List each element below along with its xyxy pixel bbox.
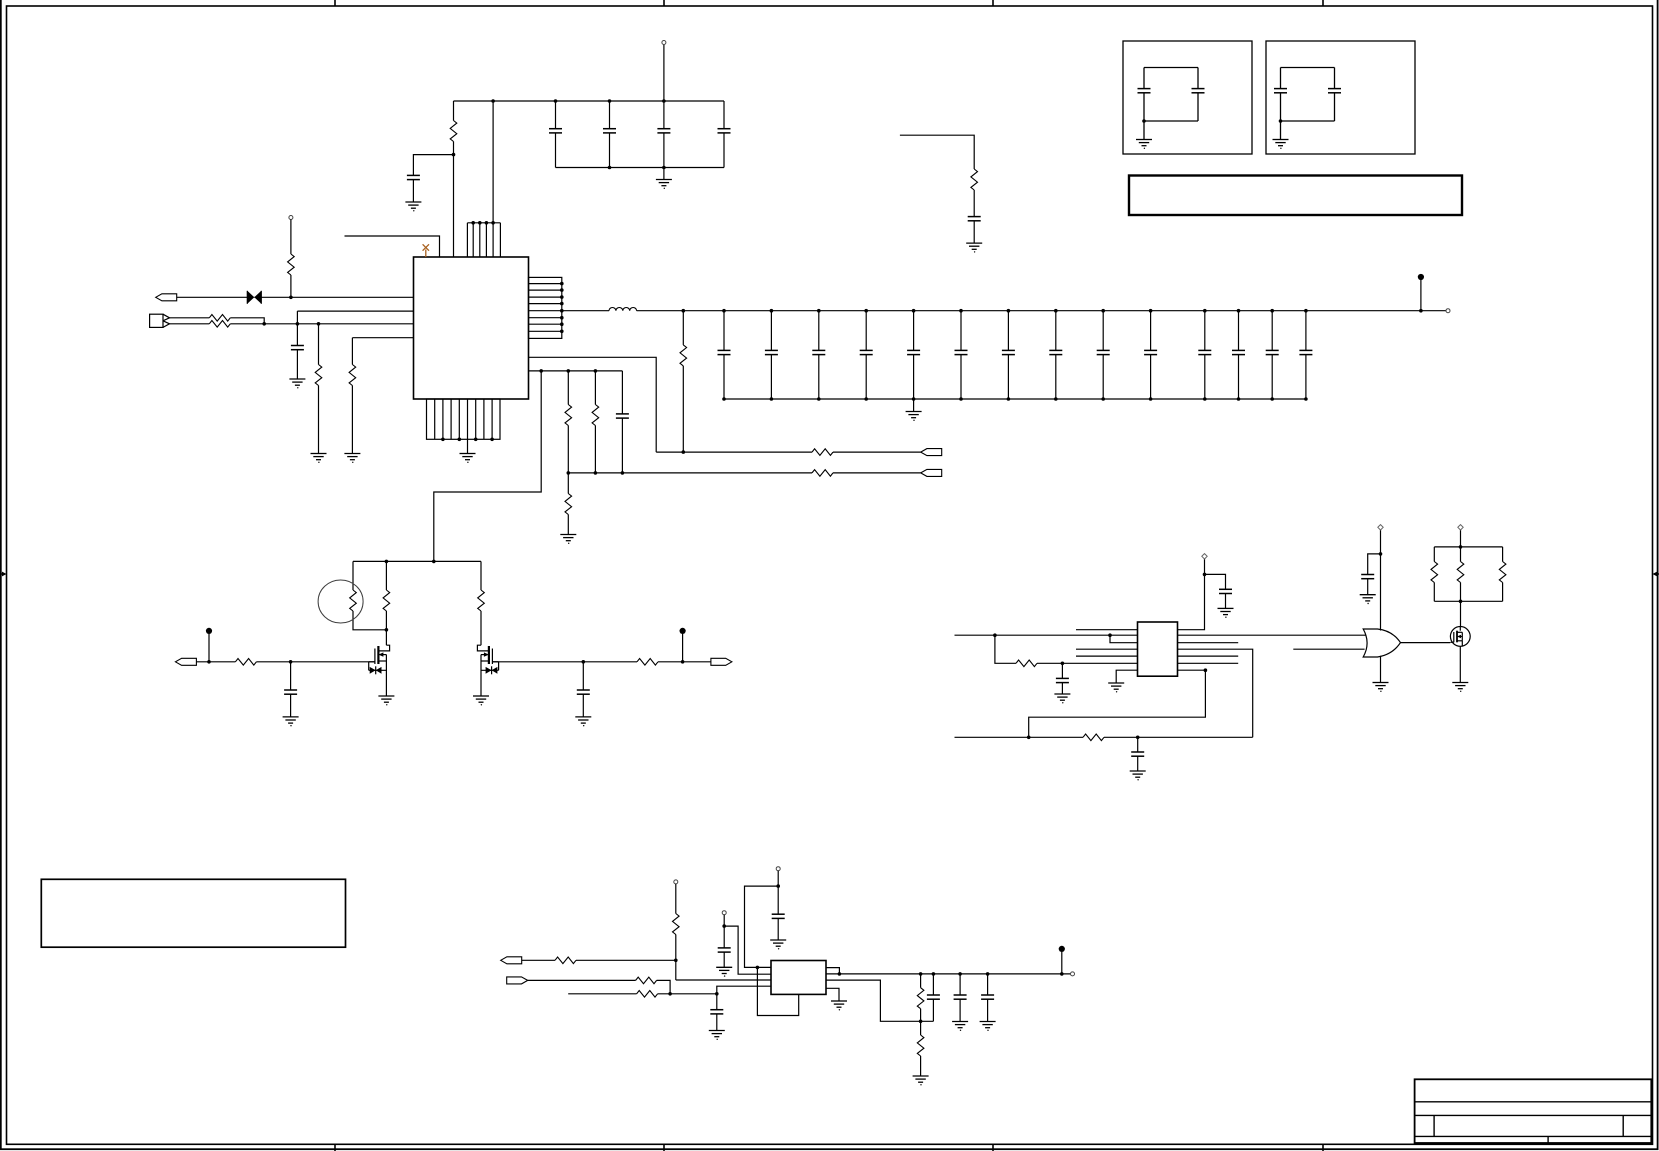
wire J2 lower (170, 323, 210, 325)
box2 bottom wire (1281, 120, 1335, 122)
capacitor in box2 right (1328, 68, 1341, 122)
wire U3 output (1401, 642, 1451, 644)
capacitor C1 (407, 175, 420, 202)
wire J8 to R25 (528, 979, 636, 981)
transistor Q1 (369, 630, 390, 696)
title block cell divider left (1433, 1115, 1435, 1136)
resistor R25 (636, 977, 657, 984)
resistor R14 (383, 561, 390, 629)
caps ground rail (724, 398, 1306, 400)
resistor R2 pull (288, 216, 295, 298)
wire R4 to U1 pin3 (230, 323, 413, 325)
ground cap group (656, 168, 672, 190)
wire drop to R18 (995, 635, 1016, 663)
connector J2 dual (150, 314, 170, 327)
transistor Q2 (477, 645, 498, 696)
junction C6 tap (296, 322, 300, 326)
rail test point stub (1418, 274, 1424, 313)
junction box2 (1279, 119, 1283, 123)
wire node to U4 pin3 (676, 979, 771, 981)
junction pullup top (1459, 545, 1463, 549)
test point right (680, 628, 686, 664)
decoupling capacitor C12 (955, 309, 968, 401)
label banner rectangle (1129, 176, 1462, 216)
wire R3 to merge (230, 318, 264, 324)
resistor R21 (1457, 547, 1464, 601)
resistor R7 (680, 311, 687, 452)
wire R17 to J6 (658, 661, 711, 663)
junction pinR7 (1204, 668, 1208, 672)
capacitor C30 (718, 948, 731, 967)
test point left (206, 628, 212, 664)
wire U2 pinR4 loop (1178, 649, 1253, 737)
junction rail a (385, 560, 389, 564)
resistor R15 (235, 659, 256, 666)
ground U2 pin7 (1108, 683, 1124, 693)
terminal pull node b (722, 911, 726, 948)
option box 1 top-right (1123, 41, 1252, 154)
title block divider row1 (1415, 1101, 1652, 1103)
wire snubber net (900, 135, 974, 169)
resistor R22 (1499, 547, 1506, 601)
ground U4 pinR3 (831, 1001, 847, 1011)
wire J2 upper (170, 317, 210, 319)
ground C1 (405, 202, 421, 212)
terminal diamond pullups (1458, 525, 1463, 530)
capacitor C29 (772, 914, 785, 940)
connector J3 (921, 449, 942, 456)
capacitor C31 (927, 974, 940, 1021)
gate top rail (353, 560, 481, 562)
wire Q2 gate to R17 (492, 661, 637, 663)
capacitor C3 (603, 101, 616, 168)
pin stub U2 pin5 (1076, 655, 1138, 657)
junction feed row b (567, 369, 571, 373)
junction merge lower (668, 992, 672, 996)
wire U2 pinR7 loop (1029, 670, 1206, 737)
zone tick bottom 2 (663, 1144, 665, 1151)
diode D1 (247, 291, 261, 304)
pin stub U2 pin1 (1076, 629, 1138, 631)
connector J8 (507, 977, 528, 984)
capacitor C6 (291, 346, 304, 380)
ground C29 (770, 940, 786, 950)
box1 bottom wire (1144, 120, 1198, 122)
resistor R20 (1431, 547, 1438, 601)
junction pull node a (776, 884, 780, 888)
wire R19 to corner (1104, 736, 1253, 738)
junction C23 (582, 660, 586, 664)
wire U2 pinR2 to gate input (1178, 634, 1367, 636)
capacitor C22 (284, 662, 297, 717)
capacitor C24 (1056, 663, 1069, 694)
decoupling capacitor C8 (765, 309, 778, 401)
junction pullup bottom (1459, 600, 1463, 604)
junction C27 tap (1379, 552, 1383, 556)
junction sense upper (682, 450, 686, 454)
ground C24 (1054, 694, 1070, 704)
ground C25 (1218, 608, 1234, 618)
ground Q3 (1452, 683, 1468, 693)
no-connect X marker (423, 244, 429, 257)
wire R26 to cap node (658, 993, 717, 995)
resistor R24 pull (673, 880, 680, 980)
option box 2 top-right (1266, 41, 1415, 154)
resistor R9 (592, 371, 599, 473)
notes box bottom-left (41, 879, 345, 947)
wire J5 to R15 (196, 661, 235, 663)
wire U1 feed row (529, 370, 623, 372)
ground C27 (1360, 595, 1376, 605)
junction C32 (958, 972, 962, 976)
capacitor C25 (1219, 589, 1232, 608)
wire R23 to node (576, 959, 676, 961)
pin stub U2 pin4 (1076, 648, 1138, 650)
junction feed row c (594, 369, 598, 373)
cap group bottom rail (556, 167, 725, 169)
junction sense lower c (621, 471, 625, 475)
resistor R5 (315, 322, 322, 454)
junction divider mid (919, 1020, 923, 1024)
junction R24 node (674, 959, 678, 963)
ground C28 (709, 1031, 725, 1041)
ground C32 (952, 1022, 968, 1032)
terminal diamond U3 (1378, 525, 1383, 530)
junction C25 tap (1203, 573, 1207, 577)
decoupling capacitor C15 (1097, 309, 1110, 401)
wire R11 to J4 (833, 472, 921, 474)
junction rail R7 (682, 309, 686, 313)
resistor R23 (555, 957, 576, 964)
wire R10 to J3 (833, 451, 921, 453)
capacitor C34 (968, 217, 981, 244)
resistor R17 (637, 659, 658, 666)
junction box1 (1142, 119, 1146, 123)
box1 top wire (1144, 67, 1198, 69)
capacitor in box2 left (1274, 68, 1287, 140)
wire bottom net (955, 736, 1084, 738)
decoupling capacitor C17 (1198, 309, 1211, 401)
wire D1 to U1 pin1 (254, 296, 413, 298)
resistor R28 (917, 1021, 924, 1076)
connector J6 (711, 658, 732, 665)
wire sense line lower (568, 472, 812, 474)
junction divider top (919, 972, 923, 976)
pin stub U2 pinR6 (1178, 662, 1239, 664)
decoupling capacitor C18 (1232, 309, 1245, 401)
wire U3 bottom to ground (1380, 656, 1382, 683)
main power rail (637, 310, 1446, 312)
inductor L1 (609, 308, 637, 311)
wire vdd to U3 top (1380, 529, 1382, 631)
ground C34 (966, 243, 982, 253)
pin bundle above U1 (467, 221, 500, 257)
resistor R10 (812, 449, 833, 456)
output test point (1059, 946, 1065, 976)
capacitor C32 (954, 974, 967, 1022)
junction C31 (932, 972, 936, 976)
wire Q3 source to ground (1459, 646, 1461, 682)
ground R28 (913, 1076, 929, 1086)
wire J1 to D1 (177, 296, 248, 298)
ground C33 (980, 1022, 996, 1032)
ground Q2 (473, 696, 489, 706)
ground C30 (716, 967, 732, 977)
protection diode Q1 (369, 662, 387, 675)
wire to C1 (413, 155, 453, 176)
wire node a to U4 pin1 (745, 886, 779, 967)
ground Q1 (378, 696, 394, 706)
ground C23 (575, 717, 591, 727)
capacitor C4 (657, 101, 670, 168)
wire feedback loop (757, 967, 798, 1015)
connector J4 (921, 469, 942, 476)
wire U2 pin7 to ground (1116, 670, 1137, 683)
zone tick bottom 3 (992, 1144, 994, 1151)
resistor R13 circled (350, 561, 387, 629)
wire pullups to Q3 drain (1460, 601, 1462, 626)
capacitor C26 (1131, 737, 1144, 771)
ground C6 (289, 379, 305, 389)
capacitor C2 (549, 101, 562, 168)
junction sense lower b (594, 471, 598, 475)
junction C22 (289, 660, 293, 664)
ground R6 (344, 454, 360, 464)
output open terminal (1071, 972, 1075, 976)
wire drop to gate rail (434, 371, 541, 562)
decoupling capacitor C7 (718, 309, 731, 401)
zone tick left mid (0, 572, 7, 577)
capacitor in box1 right (1192, 68, 1205, 122)
capacitor C33 (981, 974, 994, 1022)
IC U4 (771, 961, 826, 995)
rail open terminal (1446, 309, 1450, 313)
wire R18 to U2 pin6 (1037, 662, 1138, 664)
pullup rail bottom (1434, 600, 1502, 602)
wire node b to U4 pin2 (724, 926, 771, 974)
wire R6 to U1 pin4 (352, 337, 413, 339)
zone tick bottom 4 (1322, 1144, 1324, 1151)
zone tick top 2 (663, 0, 665, 6)
junction C26 (1136, 736, 1140, 740)
junction merge (262, 322, 266, 326)
resistor R4 (209, 321, 230, 328)
transistor Q3 (1450, 627, 1470, 647)
wire U4 pinR3 to ground (826, 988, 839, 1001)
box2 top wire (1281, 67, 1335, 69)
pin stub U4 right1 (826, 968, 839, 974)
wire gate input 2 (1293, 648, 1364, 650)
resistor R8 (565, 371, 572, 473)
wire tap to U1 pin2 (297, 311, 413, 345)
pin stub U2 pinR3 (1178, 642, 1239, 644)
decoupling capacitor C10 (860, 309, 873, 401)
wire tap to C27 (1368, 554, 1381, 575)
junction sense lower a (567, 471, 571, 475)
wire net stub lower (568, 993, 636, 995)
pin bundle right of U1 (529, 277, 564, 338)
junction pin3 tap (1108, 633, 1112, 637)
power stub terminal (662, 41, 666, 102)
junction C24 (1061, 662, 1065, 666)
capacitor C23 (577, 662, 590, 717)
junction feed row a (539, 369, 543, 373)
wire J7 to R23 (522, 959, 555, 961)
resistor R1 (450, 101, 457, 257)
wire U2 pinR1 (1178, 559, 1205, 630)
junction dots cap group (491, 99, 665, 169)
zone tick bottom 1 (334, 1144, 336, 1151)
capacitor in box1 left (1138, 68, 1151, 140)
wire rail to L1 (562, 310, 609, 312)
title block bottom cell divider (1547, 1136, 1549, 1143)
wire U4 pinR2 loop (826, 980, 933, 1021)
ground R12 (560, 535, 576, 545)
capacitor C28 (710, 994, 723, 1031)
ground C22 (283, 717, 299, 727)
resistor R27 (917, 974, 924, 1021)
decoupling capacitor C13 (1002, 309, 1015, 401)
resistor R19 (1083, 734, 1104, 741)
terminal pull node a (776, 867, 780, 915)
title block divider row2 (1415, 1114, 1652, 1116)
title block divider row3 (1415, 1135, 1652, 1137)
ground U3 (1373, 683, 1389, 693)
capacitor C27 (1361, 575, 1374, 595)
connector J5 (175, 658, 196, 665)
protection diode Q2 (481, 662, 499, 675)
decoupling capacitor C9 (812, 309, 825, 401)
resistor R16 (478, 561, 485, 645)
junction bottom net a (1027, 736, 1031, 740)
wire output net (826, 973, 1071, 975)
capacitor C21 (616, 371, 629, 473)
title block cell divider right (1622, 1115, 1624, 1136)
terminal diamond pinR1 (1202, 554, 1207, 559)
wire sense line upper (656, 451, 812, 453)
ground box2 (1273, 140, 1289, 150)
junction feedback (756, 966, 760, 970)
wire R29 to C34 (973, 190, 975, 217)
junction C33 (986, 972, 990, 976)
resistor R12 (565, 473, 572, 535)
wire R25 to merge (657, 980, 671, 993)
zone tick top 1 (334, 0, 336, 6)
wire R15 to Q1 gate (256, 661, 375, 663)
ground bundle (460, 439, 476, 463)
wire net into U2 pin2 (955, 634, 1138, 636)
highlight circle (318, 580, 363, 623)
resistor R26 (637, 991, 658, 998)
ground R5 (311, 454, 327, 464)
ground caps row (906, 399, 922, 421)
junction D1 line (289, 296, 293, 300)
junction pull node b (722, 924, 726, 928)
IC U1 (414, 257, 529, 399)
connector J1 arrow (156, 294, 177, 301)
wire U1 to corner (529, 357, 657, 452)
IC U2 (1138, 622, 1178, 676)
zone tick right mid (1653, 572, 1659, 577)
connector J7 (501, 957, 522, 964)
zone tick top 4 (1322, 0, 1324, 6)
wire to U2 pin3 (1110, 635, 1138, 643)
ground box1 (1136, 140, 1152, 150)
pin stub U2 pinR5 (1178, 655, 1239, 657)
decoupling capacitor C14 (1049, 309, 1062, 401)
decoupling capacitor C19 (1266, 309, 1279, 401)
or-gate U3 (1363, 629, 1400, 657)
resistor R11 (812, 470, 833, 477)
node Q1 drain (385, 628, 389, 632)
node VDD top rail (454, 100, 725, 102)
decoupling capacitor C20 (1299, 309, 1312, 401)
junction R1 bottom (452, 153, 456, 157)
decoupling capacitor C16 (1144, 309, 1157, 401)
zone tick top 3 (992, 0, 994, 6)
ground C26 (1130, 771, 1146, 781)
wire bundle feed (492, 101, 494, 223)
resistor R3 (209, 315, 230, 322)
junction rail b (432, 560, 436, 564)
wire node to U4 pin4 (717, 986, 771, 994)
wire tap to C25 (1205, 574, 1226, 589)
resistor R29 (971, 169, 978, 190)
pin bundle below U1 (427, 399, 501, 441)
wire vdd to pullups (1460, 529, 1462, 547)
resistor R6 (349, 338, 356, 454)
title block outline (1415, 1079, 1652, 1143)
junction output a (838, 972, 842, 976)
capacitor C5 (718, 101, 731, 168)
junction cap node (715, 992, 719, 996)
pullup rail top (1434, 546, 1502, 548)
resistor R18 (1016, 660, 1037, 667)
decoupling capacitor C11 (907, 309, 920, 401)
wire net stub into U1 top (345, 236, 440, 257)
